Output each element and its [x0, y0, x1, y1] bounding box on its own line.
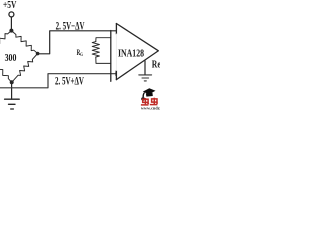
node A (bridge top)	[9, 29, 13, 33]
wire bottom output to + input	[0, 74, 116, 88]
resistor bridge top-left arm	[0, 31, 11, 54]
svg-text:G: G	[80, 52, 83, 58]
svg-text:2. 5V+ΔV: 2. 5V+ΔV	[55, 76, 84, 88]
plus input marker	[115, 72, 117, 76]
resistor bridge bottom-right arm	[12, 54, 38, 83]
op-amp U1 INA128 triangle	[116, 24, 158, 80]
wire node C to ground	[11, 83, 13, 99]
svg-text:www.cndzz.com: www.cndzz.com	[141, 105, 160, 110]
wire Ref pin	[144, 61, 146, 75]
ground (Ref)	[139, 75, 152, 81]
svg-text:+5V: +5V	[3, 0, 17, 11]
+5V terminal circle	[9, 12, 14, 17]
resistor RG	[96, 38, 111, 42]
resistor bridge top-right arm	[11, 31, 37, 54]
svg-text:Ref: Ref	[152, 60, 160, 71]
wire input bus (inner vertical)	[110, 31, 112, 82]
wire terminal to node A	[10, 17, 12, 29]
node C (bridge bottom)	[10, 80, 14, 84]
wire node B to top input	[38, 31, 117, 54]
svg-text:2. 5V−ΔV: 2. 5V−ΔV	[56, 21, 85, 33]
node B (bridge right vertex)	[36, 52, 40, 56]
watermark bug characters	[141, 98, 158, 105]
resistor bridge bottom-left arm	[0, 54, 12, 83]
svg-text:300: 300	[5, 52, 17, 64]
ground (bridge)	[5, 99, 20, 109]
svg-text:INA128: INA128	[118, 49, 144, 60]
watermark graduation cap	[141, 88, 155, 100]
